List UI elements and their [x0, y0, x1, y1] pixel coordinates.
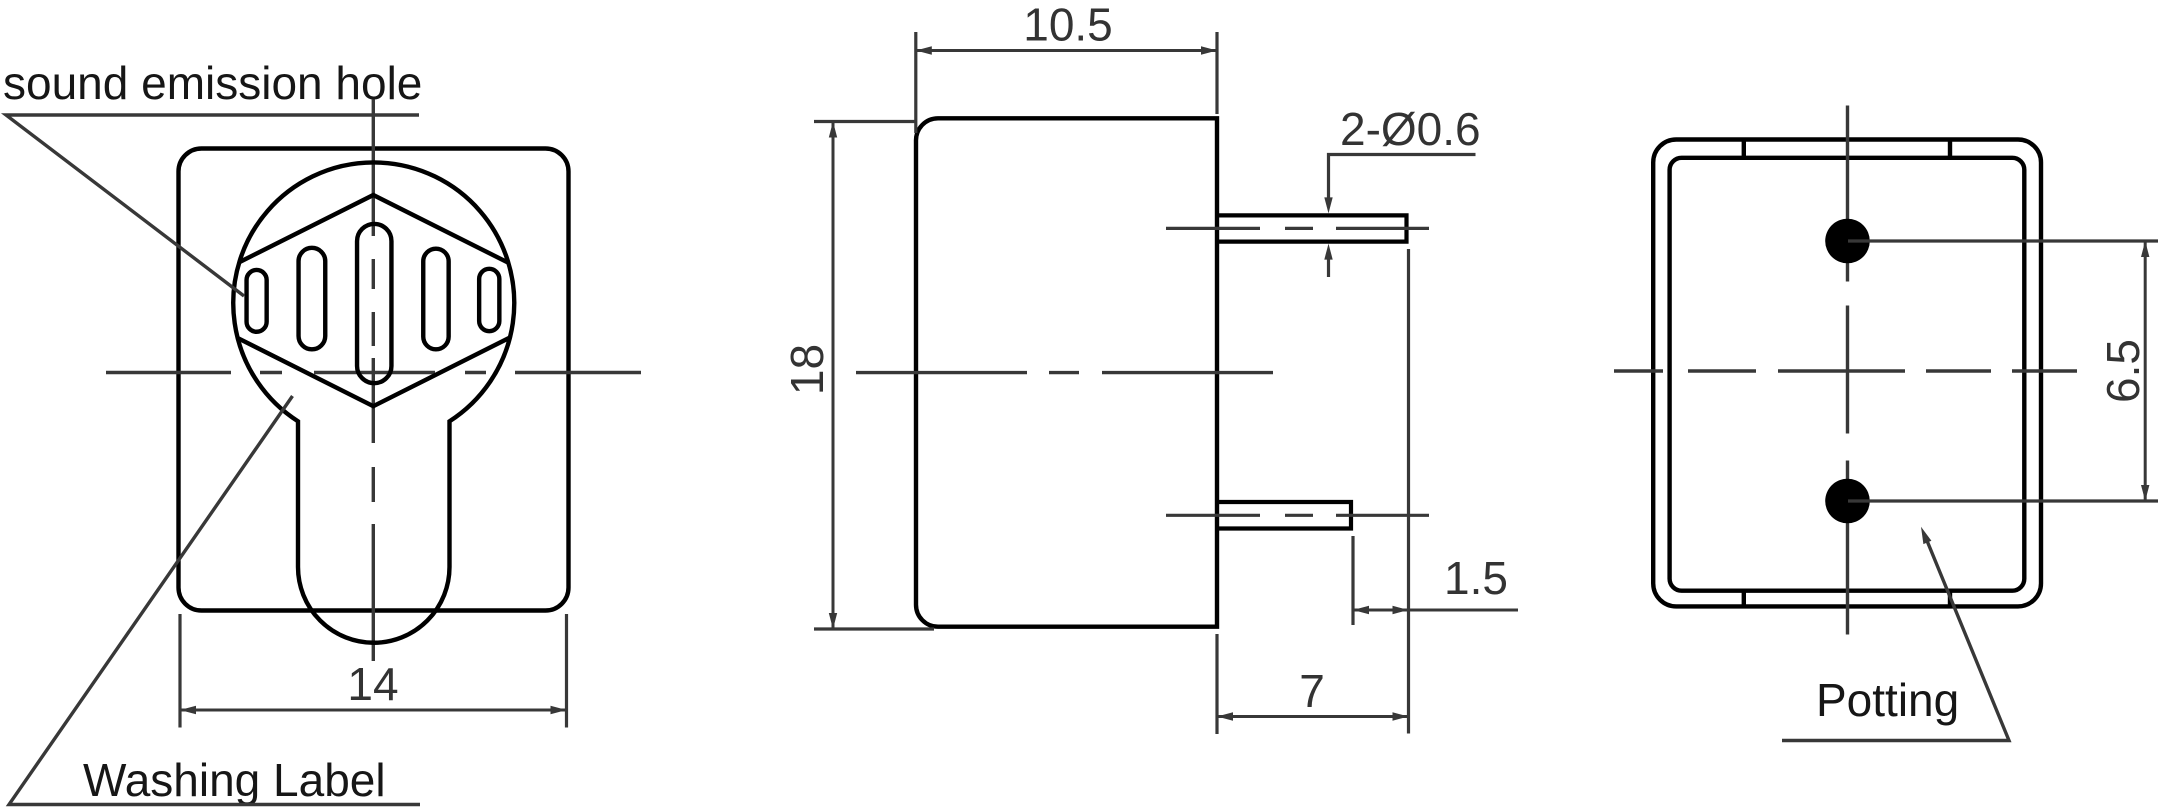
svg-text:Potting: Potting — [1816, 674, 1959, 726]
arrow left 7 — [1217, 712, 1233, 720]
inner outline back view — [1670, 158, 2025, 591]
horizontal centerline front view — [106, 371, 641, 374]
leader underline sound emission hole — [6, 115, 419, 296]
horizontal centerline back view — [1614, 369, 2077, 372]
dimension 1.5 extension line (bottom pin tip) — [1351, 536, 1354, 625]
arrow right 7 — [1393, 712, 1409, 720]
arrow left 14 — [180, 706, 196, 714]
seam tick bottom right — [1948, 589, 1952, 609]
svg-text:Washing Label: Washing Label — [83, 754, 386, 806]
svg-text:6.5: 6.5 — [2097, 339, 2149, 403]
extension line top dot — [1848, 239, 2158, 242]
pin dot top — [1825, 219, 1870, 264]
arrow right 14 — [551, 706, 567, 714]
leader underline washing label — [9, 396, 420, 805]
body outline front view — [179, 149, 569, 611]
dimension 18 extension lines — [814, 122, 934, 630]
slot 1 — [247, 270, 267, 332]
seam tick top right — [1948, 138, 1952, 160]
vertical centerline back view — [1846, 106, 1849, 635]
arrow right 1.5 — [1393, 606, 1409, 614]
bottom pin centerline — [1166, 514, 1429, 517]
dimension 14 extension lines — [180, 614, 567, 728]
arrow right 10.5 — [1201, 46, 1217, 54]
seam tick bottom left — [1742, 589, 1746, 609]
arrow down 6.5 — [2141, 485, 2149, 501]
dimension 14 line — [180, 709, 567, 712]
svg-text:2-Ø0.6: 2-Ø0.6 — [1340, 103, 1481, 155]
svg-text:1.5: 1.5 — [1444, 552, 1508, 604]
arrow left 1.5 — [1353, 606, 1369, 614]
tail below pin — [1327, 252, 1330, 277]
dimension 7 extension line left — [1215, 634, 1218, 734]
dimension 18 line — [832, 122, 835, 630]
dimension 6.5 line — [2144, 241, 2147, 501]
leader potting — [1782, 540, 2009, 741]
arrow up to pin bottom — [1324, 244, 1332, 260]
vertical centerline front view — [372, 100, 375, 662]
arrow down 18 — [829, 613, 837, 629]
dimension 7 line — [1217, 715, 1409, 718]
top pin — [1217, 215, 1407, 241]
slot 4 — [423, 249, 448, 350]
dimension 10.5 extension lines — [916, 32, 1217, 133]
arrow down to pin top — [1324, 197, 1332, 213]
arrow up 6.5 — [2141, 241, 2149, 257]
body outline side view — [916, 118, 1217, 626]
svg-text:14: 14 — [347, 658, 398, 710]
arrow up 18 — [829, 122, 837, 138]
dimension 1.5 line — [1353, 609, 1518, 612]
bottom pin — [1217, 502, 1351, 529]
slot 3 (center) — [357, 224, 391, 383]
svg-text:18: 18 — [781, 344, 833, 395]
circle sound plate with keyhole tab — [233, 162, 514, 642]
extension line bottom dot — [1848, 499, 2158, 502]
svg-text:7: 7 — [1299, 665, 1325, 717]
svg-text:sound emission hole: sound emission hole — [3, 57, 422, 109]
seam tick top left — [1742, 138, 1746, 160]
arrow left 10.5 — [916, 46, 932, 54]
svg-text:10.5: 10.5 — [1023, 0, 1113, 51]
slot 2 — [299, 248, 326, 350]
dimension 10.5 line — [916, 49, 1217, 52]
top pin centerline — [1166, 227, 1429, 230]
outer outline back view — [1653, 140, 2041, 607]
extension line from top pin tip — [1407, 249, 1410, 734]
diamond bezel (clipped to circle) — [163, 195, 584, 406]
pin dot bottom — [1825, 479, 1870, 524]
leader 2-Ø0.6 — [1329, 155, 1476, 201]
horizontal centerline side view — [856, 371, 1273, 374]
arrowhead potting — [1921, 527, 1931, 544]
slot 5 — [479, 269, 499, 331]
